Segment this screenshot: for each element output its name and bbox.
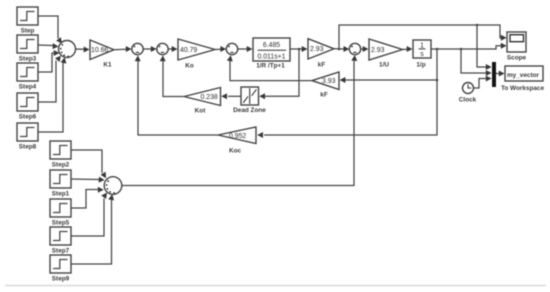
- wire S5 to 1/U: [361, 46, 369, 52]
- step source Step3: [17, 35, 38, 63]
- gain kF 2.93: [308, 39, 334, 69]
- gain Ko 40.79: [178, 39, 215, 70]
- wire dead zone to Kot: [221, 93, 241, 99]
- gain Kot 0.238 left pointing: [184, 88, 221, 115]
- wire mux to To Workspace: [496, 71, 505, 77]
- svg-text:Step4: Step4: [19, 84, 37, 91]
- wire Koc output to S2 bottom: [135, 55, 218, 135]
- svg-text:10.66: 10.66: [91, 47, 108, 54]
- svg-text:2.93: 2.93: [310, 46, 324, 53]
- wire integrator branch to mux input 2: [461, 49, 492, 76]
- wire integrator to scope lower input with branch nodes: [431, 43, 507, 51]
- gain Koc 0.952 left pointing: [218, 127, 256, 155]
- gain K1 10.66: [90, 40, 114, 69]
- wire 1/U to integrator: [403, 46, 413, 52]
- svg-text:40.79: 40.79: [180, 47, 197, 54]
- wire integrator branch down to kf input: [340, 49, 439, 83]
- sum junction S3: [157, 43, 168, 54]
- mux bar: [492, 62, 496, 87]
- svg-text:K1: K1: [103, 62, 112, 69]
- svg-text:3.93: 3.93: [322, 78, 336, 85]
- wire Step3 to S1: [38, 43, 59, 49]
- sum junction S1: [59, 41, 76, 58]
- wire kF branch to scope top input: [339, 25, 507, 49]
- svg-text:Step: Step: [21, 28, 35, 35]
- svg-text:Step7: Step7: [52, 248, 70, 255]
- wire Kot output to S3 bottom: [160, 55, 184, 96]
- sum junction S5: [349, 43, 360, 54]
- svg-text:Step6: Step6: [19, 114, 37, 121]
- svg-text:kF: kF: [320, 92, 328, 99]
- wire Step7 to S6 bottom left: [71, 193, 107, 237]
- wire Step2 to S6 top: [71, 150, 106, 178]
- clock: [459, 83, 477, 104]
- svg-text:Step8: Step8: [19, 144, 37, 151]
- svg-text:Step5: Step5: [52, 220, 70, 227]
- svg-text:Kot: Kot: [195, 108, 207, 115]
- svg-text:0.011s+1: 0.011s+1: [257, 54, 285, 61]
- wire top line branch to mux input 1: [476, 24, 492, 70]
- wire K1 to S2: [114, 46, 132, 52]
- svg-text:Dead Zone: Dead Zone: [233, 107, 266, 114]
- wire S2 to S3: [143, 46, 156, 52]
- svg-text:Scope: Scope: [507, 55, 527, 62]
- svg-text:my_vector: my_vector: [507, 72, 539, 79]
- step source Step4: [17, 63, 38, 91]
- wire S3 to Ko: [168, 46, 177, 52]
- svg-text:Step9: Step9: [52, 276, 70, 283]
- To Workspace block my_vector: [501, 66, 545, 92]
- wire kF to S5 with branch node: [334, 46, 349, 52]
- wire TF to kF with branch node: [290, 46, 308, 52]
- wire S4 to TF: [238, 46, 253, 52]
- integrator block 1/p: [413, 40, 431, 69]
- step source Step1: [50, 170, 71, 198]
- bottom separator line: [5, 285, 546, 287]
- svg-text:Step2: Step2: [52, 162, 70, 169]
- wire kf output to S4 bottom: [227, 55, 312, 80]
- svg-text:Step3: Step3: [19, 56, 37, 63]
- wire Step8 to S1: [38, 57, 66, 132]
- svg-text:s: s: [420, 51, 424, 58]
- svg-text:0.952: 0.952: [229, 133, 246, 140]
- wire Step9 to S6 bottom: [71, 194, 114, 264]
- wire Step4 to S1: [38, 50, 60, 72]
- transfer function block 1/R /Tp+1: [253, 38, 290, 70]
- step source Step8: [17, 123, 38, 151]
- wire clock to mux input 3: [474, 76, 492, 89]
- step source Step7: [50, 227, 71, 255]
- svg-text:Step1: Step1: [52, 191, 70, 198]
- scope block: [507, 32, 527, 62]
- gain 1/U 2.93: [369, 39, 403, 69]
- step source Step: [17, 7, 38, 35]
- svg-text:To Workspace: To Workspace: [501, 85, 545, 92]
- dead zone block: [233, 87, 266, 114]
- wire Ko to S4: [215, 46, 226, 52]
- wire S6 output up to S5 bottom: [122, 55, 357, 186]
- sum junction S4: [226, 43, 237, 54]
- step source Step5: [50, 199, 71, 227]
- svg-text:6.485: 6.485: [263, 42, 280, 49]
- wire S1 to K1: [76, 47, 90, 53]
- wire integrator branch down to Koc input: [257, 80, 437, 138]
- svg-text:Koc: Koc: [229, 148, 242, 155]
- svg-text:kF: kF: [318, 62, 326, 69]
- wire Step to S1: [38, 16, 62, 44]
- wire TF branch down to dead zone input: [259, 49, 299, 99]
- step source Step6: [17, 93, 38, 121]
- svg-text:1/U: 1/U: [379, 62, 389, 69]
- svg-text:1/R /Tp+1: 1/R /Tp+1: [256, 63, 285, 70]
- svg-text:Clock: Clock: [459, 97, 477, 104]
- wire Step1 to S6 left upper: [71, 177, 105, 183]
- step source Step9: [50, 255, 71, 283]
- svg-text:0.238: 0.238: [201, 94, 218, 101]
- sum junction S2: [132, 43, 143, 54]
- wire Step5 to S6 left lower: [71, 187, 104, 208]
- sum junction S6 lower group: [104, 177, 122, 195]
- svg-text:Ko: Ko: [185, 63, 194, 70]
- svg-text:2.93: 2.93: [371, 47, 385, 54]
- wire Step6 to S1: [38, 56, 61, 102]
- svg-text:1/p: 1/p: [416, 62, 425, 69]
- gain kf 3.93 left pointing: [312, 72, 339, 99]
- step source Step2: [50, 141, 71, 169]
